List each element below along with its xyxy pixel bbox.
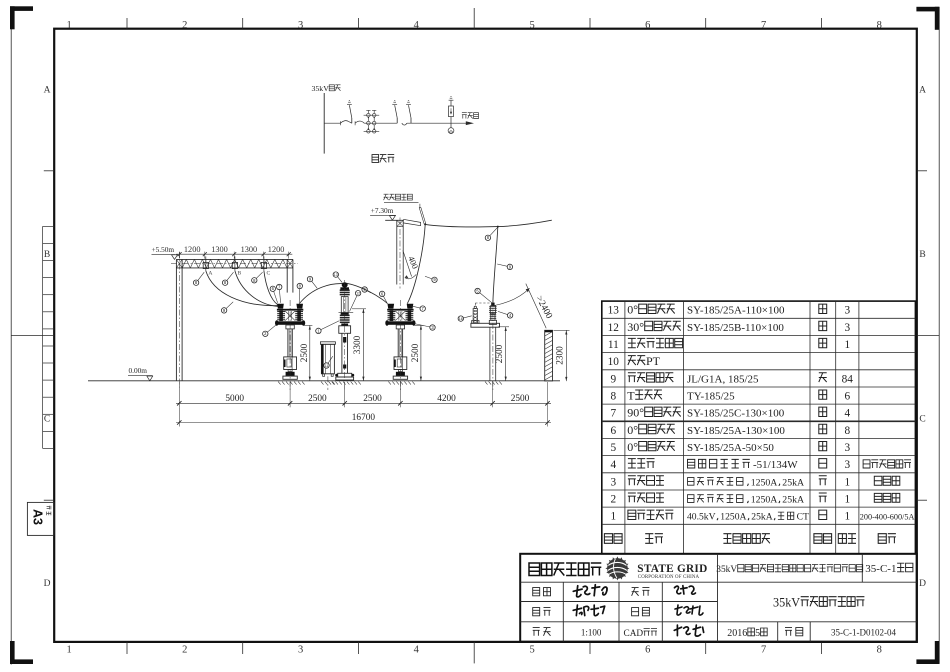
svg-text:2500: 2500 (511, 394, 530, 404)
svg-text:B: B (44, 250, 50, 260)
surge arrester branch (one-line) (449, 96, 454, 123)
svg-text:25kA: 25kA (751, 512, 772, 523)
svg-text:10: 10 (608, 356, 620, 368)
dimension 400 diagonal (403, 251, 421, 279)
gantry right column (behind switch S1) (287, 259, 293, 292)
svg-text:+5.50m: +5.50m (152, 245, 175, 254)
svg-text:25kA: 25kA (782, 477, 804, 488)
sheet outer border right edge (938, 7, 940, 664)
svg-text:12: 12 (356, 292, 360, 296)
svg-text:8: 8 (877, 20, 882, 31)
bottom ruler numbers 1-8 (66, 645, 881, 656)
svg-text:35kV: 35kV (716, 565, 737, 575)
breaker terminal box (断路器端子箱) (320, 342, 335, 390)
callout 6 at S1 left terminal (270, 286, 278, 303)
top ruler ticks (127, 8, 822, 29)
svg-text:8: 8 (844, 425, 850, 437)
level mark 0.00m (128, 366, 153, 381)
svg-text:4: 4 (844, 408, 850, 420)
table row item 5 (610, 440, 850, 454)
svg-text:25kA: 25kA (782, 495, 804, 506)
corner trim mark bottom-right (916, 641, 939, 664)
left signature strip cells (43, 226, 55, 448)
callout 3 at S2 platform (414, 324, 435, 331)
callout 16 at counter (458, 316, 472, 322)
svg-text:3: 3 (298, 20, 303, 31)
svg-text:6: 6 (844, 391, 850, 403)
table row item 3 (610, 476, 899, 489)
svg-text:0°: 0° (627, 423, 638, 437)
jumper S1 to breaker (299, 284, 342, 304)
svg-text:5: 5 (529, 645, 534, 656)
callout 4 at arrester (498, 311, 513, 318)
callout 2 at S1 platform (263, 325, 277, 337)
label 批准 (533, 588, 551, 596)
table row item 13 (608, 303, 851, 317)
svg-text:1: 1 (610, 511, 616, 523)
svg-text:2016: 2016 (727, 628, 747, 639)
wire main feeder line (324, 122, 466, 124)
level mark +5.50m (152, 245, 178, 259)
jumper phase C (264, 271, 278, 305)
CT group (6 circles) (364, 110, 380, 133)
callout 9 on jumper (221, 302, 233, 313)
svg-text:7: 7 (610, 408, 616, 420)
right ruler letters A-D (919, 85, 926, 589)
callout 5 at arrester top (475, 288, 492, 302)
scale 1:100 (581, 628, 602, 638)
signature design (675, 605, 703, 615)
svg-text:1: 1 (66, 645, 71, 656)
callout 11 at terminal box (324, 356, 333, 368)
jumper breaker to S2 (347, 283, 388, 303)
corner trim mark top-right (916, 7, 939, 30)
top ruler numbers 1-8 (66, 20, 881, 31)
State Grid logo (605, 556, 629, 580)
table row item 6 (610, 423, 850, 437)
svg-text:PT: PT (646, 354, 661, 368)
svg-text:0°: 0° (627, 440, 638, 454)
drawing number 35-C-1-D0102-04 (831, 628, 896, 638)
discharge counter circle (one-line) (448, 123, 454, 133)
project title 35kV智能变电站模块化建设施工图通用设计 (716, 565, 862, 576)
phase label A (208, 270, 212, 276)
svg-text:11: 11 (325, 364, 329, 368)
corner trim mark bottom-left (10, 641, 33, 664)
earth switch E2 with ground (392, 100, 397, 123)
svg-text:JL/G1A, 185/25: JL/G1A, 185/25 (687, 373, 759, 385)
gantry left column (176, 252, 182, 390)
svg-text:1: 1 (844, 494, 850, 506)
svg-text:16700: 16700 (352, 413, 376, 423)
table row item 10 (608, 354, 661, 368)
outgoing line arrow (出线侧) (462, 113, 479, 125)
svg-text:1: 1 (844, 511, 850, 523)
svg-text:1200: 1200 (184, 245, 201, 254)
svg-text:13: 13 (608, 305, 620, 317)
svg-text:+7.30m: +7.30m (371, 206, 394, 215)
callout 7 at S1 left terminal (277, 284, 282, 303)
svg-text:6: 6 (645, 20, 650, 31)
svg-text:A: A (919, 85, 926, 95)
suspension insulator phase C (261, 256, 266, 270)
label 审核 (533, 608, 551, 616)
svg-text:A: A (208, 270, 212, 276)
svg-text:CT: CT (797, 512, 809, 523)
svg-text:35-C-1: 35-C-1 (865, 563, 896, 575)
svg-text:SY-185/25A-110×100: SY-185/25A-110×100 (687, 305, 785, 317)
bus 35kV vertical line (323, 93, 325, 154)
fire wall (hatched) (545, 330, 553, 381)
label 比例 (533, 628, 551, 636)
svg-text:A: A (44, 85, 51, 95)
gantry truss beam (171, 259, 298, 268)
signature approve (573, 585, 607, 597)
svg-text:1: 1 (66, 20, 71, 31)
callout 8 on phase C clamp (252, 272, 263, 283)
svg-text:200-400-600/5A: 200-400-600/5A (860, 513, 915, 522)
svg-text:2300: 2300 (556, 346, 566, 365)
svg-text:A3: A3 (31, 509, 45, 525)
svg-text:35-C-1-D0102-04: 35-C-1-D0102-04 (831, 628, 896, 638)
dimension 2500 at arrester (495, 327, 509, 381)
svg-text:3: 3 (844, 305, 850, 317)
svg-text:CAD: CAD (624, 629, 644, 639)
label 35kV busbar (35kV母线) (312, 84, 341, 93)
earth switch E1 with ground (347, 100, 352, 123)
suspension insulator phase A (203, 256, 208, 270)
svg-text:T: T (627, 389, 635, 403)
ground line (88, 380, 560, 382)
table row item 8 (610, 389, 850, 403)
svg-text:2: 2 (182, 20, 187, 31)
svg-text:D: D (44, 579, 51, 589)
arrester support beam and column (471, 300, 502, 390)
svg-text:1250A: 1250A (720, 512, 746, 523)
table row item 2 (610, 493, 899, 506)
svg-text:90°: 90° (627, 406, 644, 420)
svg-text:2: 2 (610, 494, 616, 506)
svg-text:2500: 2500 (495, 344, 505, 363)
svg-text:5: 5 (610, 442, 616, 454)
svg-text:3: 3 (844, 322, 850, 334)
left ruler letters A-D (44, 85, 51, 589)
svg-text:CORPORATION OF CHINA: CORPORATION OF CHINA (638, 575, 700, 580)
svg-text:1250A: 1250A (751, 477, 778, 488)
callout 9 on jumper S1-breaker (307, 276, 317, 288)
svg-text:1: 1 (844, 476, 850, 488)
signature check (674, 586, 695, 594)
callout 9 on down lead 1 (425, 276, 437, 282)
disconnect switch S1 (隔离开关) (275, 300, 305, 390)
svg-text:TY-185/25: TY-185/25 (687, 391, 735, 403)
clearance arc >2400 (495, 284, 554, 329)
callout 9 on jumper breaker-S2 (362, 287, 371, 293)
dimension row 5000/2500/2500/4200/2500 (176, 382, 551, 407)
label 图号 (785, 628, 803, 636)
label 校核 (632, 588, 650, 596)
label line-side insulator (线路侧绝缘子) (384, 194, 419, 203)
callout 8 at conductor junction (485, 228, 497, 241)
title block grid (520, 554, 917, 642)
table row item 4 (610, 459, 911, 472)
callout 9 on down lead 2 (497, 264, 512, 270)
corner trim mark top-left (10, 6, 33, 29)
discharge counter device (472, 306, 479, 323)
drawing title 35kV出线间隔断面图 (773, 596, 864, 610)
svg-text:11: 11 (608, 339, 619, 351)
svg-text:1:100: 1:100 (581, 628, 602, 638)
svg-text:12: 12 (608, 322, 620, 334)
svg-text:3300: 3300 (353, 335, 363, 354)
line insulator string V (419, 204, 426, 224)
table row item 11 (608, 338, 850, 351)
table row item 12 (608, 320, 851, 334)
table row item 9 (610, 373, 853, 386)
callout 7 at S2 right terminal (411, 306, 426, 312)
svg-text:0.00m: 0.00m (129, 366, 148, 375)
down lead to S2 (wire) (407, 224, 425, 303)
dimension row 16700 overall (176, 407, 551, 426)
bottom ruler ticks (127, 642, 822, 664)
level mark +7.30m (370, 206, 396, 220)
svg-text:4: 4 (414, 645, 420, 656)
svg-text:STATE GRID: STATE GRID (637, 563, 707, 575)
svg-text:1200: 1200 (268, 245, 285, 254)
disconnect switch S2 (隔离开关) (385, 300, 415, 390)
parts table grid (602, 301, 916, 554)
svg-text:8: 8 (610, 391, 616, 403)
jumper phase A (206, 271, 278, 306)
dimension 2500 at S1 (300, 325, 313, 380)
svg-text:2500: 2500 (411, 343, 421, 362)
svg-text:7: 7 (761, 20, 766, 31)
left ruler ticks (11, 171, 54, 500)
signature cad (674, 625, 703, 636)
svg-text:5: 5 (529, 20, 534, 31)
phase label B (238, 270, 242, 276)
svg-text:C: C (919, 415, 925, 425)
callout 12 at breaker (350, 291, 361, 312)
vacuum circuit breaker Q1 (真空断路器) (332, 280, 361, 390)
svg-text:2: 2 (182, 645, 187, 656)
STATE GRID wordmark (637, 563, 707, 580)
disconnector DS2 dogleg (one-line) (402, 123, 407, 125)
dimension row 1200/1300/1300/1200 above gantry (176, 245, 292, 259)
callout 1 at breaker support (316, 321, 340, 334)
svg-text:SY-185/25B-110×100: SY-185/25B-110×100 (687, 322, 784, 334)
svg-text:-51/134W: -51/134W (753, 459, 798, 471)
table header row (604, 534, 896, 544)
svg-text:8: 8 (877, 645, 882, 656)
overhead conductor wire (424, 220, 552, 227)
dimension 2500 at S2 (411, 325, 424, 380)
svg-text:30°: 30° (627, 320, 644, 334)
sheet size box (A3) (27, 502, 54, 535)
svg-text:SY-185/25A-130×100: SY-185/25A-130×100 (687, 425, 785, 437)
svg-text:SY-185/25C-130×100: SY-185/25C-130×100 (687, 408, 785, 420)
svg-text:4200: 4200 (437, 394, 456, 404)
signature review (573, 605, 605, 616)
svg-text:7: 7 (761, 645, 766, 656)
svg-text:3: 3 (298, 645, 303, 656)
svg-text:5000: 5000 (225, 394, 244, 404)
phase label C (267, 270, 271, 276)
svg-text:9: 9 (610, 373, 616, 385)
callout 8 on phase B clamp (222, 272, 233, 285)
svg-text:35kV: 35kV (312, 84, 330, 93)
label 设计 (632, 608, 650, 616)
label CAD制图 (624, 629, 658, 639)
dimension 3300 at breaker (352, 309, 366, 381)
counter wiring dashed (475, 303, 492, 306)
svg-text:84: 84 (842, 373, 854, 385)
callout 8 at S1 right terminal (297, 283, 302, 303)
sheet outer border left edge (10, 7, 12, 665)
svg-text:D: D (919, 579, 926, 589)
dimension 2300 at wall (554, 330, 570, 381)
table row item 1 (610, 510, 914, 523)
jumper phase B (235, 271, 278, 307)
svg-text:4: 4 (414, 20, 420, 31)
svg-text:B: B (919, 250, 925, 260)
table row item 7 (610, 406, 850, 420)
callout 6 at S2 left terminal (379, 291, 387, 303)
callout 8 on phase A clamp (193, 272, 204, 285)
down lead to arrester (wire) (493, 227, 498, 303)
svg-text:2500: 2500 (300, 343, 310, 362)
svg-text:1300: 1300 (211, 245, 228, 254)
svg-text:1: 1 (844, 339, 850, 351)
svg-text:6: 6 (645, 645, 650, 656)
scheme 35-C-1方案 (865, 563, 913, 575)
svg-text:C: C (267, 270, 271, 276)
right ruler ticks (917, 171, 939, 500)
svg-text:35kV: 35kV (773, 596, 800, 610)
svg-text:1250A: 1250A (751, 495, 778, 506)
svg-text:6: 6 (610, 425, 616, 437)
svg-text:2500: 2500 (308, 394, 327, 404)
svg-text:3: 3 (844, 459, 850, 471)
disconnector DS1 dogleg contacts (one-line) (340, 121, 364, 126)
date 2016年5月 (727, 628, 767, 639)
svg-text:4: 4 (610, 459, 616, 471)
svg-text:0°: 0° (627, 303, 638, 317)
svg-text:1300: 1300 (241, 245, 258, 254)
callout 13 at breaker top (333, 272, 342, 283)
svg-text:3: 3 (610, 476, 616, 488)
svg-text:13: 13 (334, 273, 338, 277)
svg-text:2500: 2500 (363, 394, 382, 404)
caption 接线图 (372, 155, 394, 163)
earth switch E3 with ground (406, 100, 411, 123)
svg-text:3: 3 (844, 442, 850, 454)
svg-text:5: 5 (755, 628, 760, 639)
svg-text:40.5kV: 40.5kV (687, 512, 716, 523)
company name 国家电网公司 (529, 563, 601, 576)
line terminal post structure (385, 218, 420, 289)
svg-text:B: B (238, 270, 242, 276)
suspension insulator phase B (232, 256, 237, 270)
surge arrester F1 (避雷器) (489, 303, 497, 325)
svg-text:SY-185/25A-50×50: SY-185/25A-50×50 (687, 442, 774, 454)
svg-text:16: 16 (459, 317, 463, 321)
svg-text:C: C (44, 415, 50, 425)
